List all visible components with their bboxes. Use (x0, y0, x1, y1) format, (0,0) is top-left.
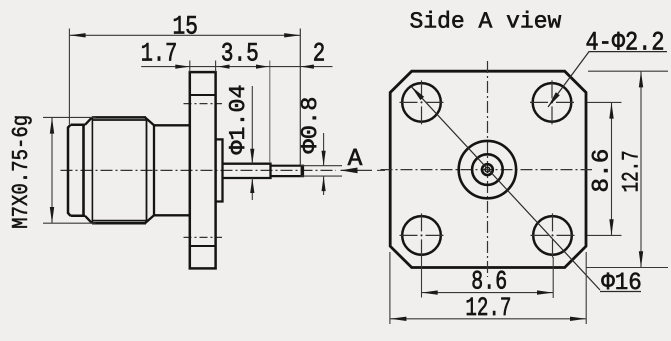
arrow A (points left) (341, 168, 358, 174)
text 8.6 right rotated (592, 150, 608, 191)
arrow 12.7 right bottom (639, 251, 643, 267)
text 8.6 bottom (472, 271, 505, 289)
dim line 12.7 right (640, 71, 642, 267)
A arrow line (341, 169, 373, 171)
dim line 8.6 bottom (422, 292, 554, 294)
text 15 (174, 16, 197, 34)
vertical centerline (487, 61, 489, 277)
hole top-right (533, 83, 572, 122)
thread relief line (82, 125, 85, 216)
text 4-dia2.2 (587, 32, 663, 50)
dia0.8 dim line upper (323, 133, 325, 166)
ext line 8.6 bottom (587, 234, 622, 236)
barrel section (154, 125, 190, 215)
dim line 1.7 / 3.5 / 2 (141, 66, 332, 68)
M7 ext line top (43, 116, 96, 118)
arrow 1.7 left (points right) (175, 65, 190, 69)
ext line 8.6 top (587, 101, 622, 103)
centerline main axis (61, 169, 337, 171)
arrow M7 bottom (50, 207, 54, 223)
horizontal centerline (381, 169, 593, 171)
text dia1.04 rotated (229, 86, 244, 155)
center circle outer (459, 141, 516, 198)
hole centerline lower (side view) (184, 236, 223, 238)
flange (side view) (190, 72, 216, 268)
hole top-left (402, 83, 441, 122)
diagonal leader dia16 (411, 86, 641, 291)
pin bottom ext line (300, 175, 342, 177)
centerline dash after A arrow (377, 169, 385, 171)
thread section outline (68, 125, 85, 216)
body inner edge lines (93, 120, 147, 221)
arrowhead 4-dia2.2 leader (548, 92, 560, 107)
arrowhead dia16 leader (411, 86, 424, 100)
flange square outline with chamfered corners (390, 71, 586, 267)
dia0.8 dim line lower (323, 176, 325, 195)
ext line cylinder end (269, 61, 271, 164)
title Side A view (410, 11, 561, 28)
leader 4-dia2.2 (548, 52, 667, 107)
arrow 15 left (69, 33, 85, 37)
body left chamfer ring line (91, 117, 93, 223)
boss behind flange (216, 139, 223, 201)
hole crosshairs (400, 80, 575, 257)
ext line 12.7 top (588, 70, 668, 72)
arrow 12.7 bottom right (570, 317, 586, 321)
text 2 (314, 43, 324, 61)
dia1.04 dim line lower (251, 178, 253, 200)
ext line 8.6 bottom-left (421, 257, 423, 298)
ext line left (x=69.4) (68, 29, 70, 125)
ext line 12.7 bottom-left (389, 252, 391, 324)
arrow dia0.8 bottom (322, 176, 326, 191)
insulator cylinder (223, 164, 271, 178)
arrow 8.6 bottom left (422, 290, 438, 294)
arrow 2 right (points left) (300, 65, 314, 69)
ext line flange right (215, 61, 217, 73)
arrow 8.6 right top (609, 102, 613, 118)
dim line 12.7 bottom (390, 318, 586, 320)
body outline (92, 117, 146, 223)
pin tip face (301, 166, 304, 176)
ext line 8.6 bottom-right (552, 257, 554, 298)
hole centerline upper (side view) (184, 103, 223, 105)
text A view label (348, 149, 363, 165)
arrow 15 right (284, 33, 300, 37)
center circle pin (485, 167, 490, 172)
ext line 12.7 bottom (586, 267, 668, 269)
arrow M7 top (50, 117, 54, 133)
center circle small (482, 164, 493, 175)
center circle mid (472, 154, 503, 185)
ext line flange left (189, 61, 191, 73)
dims right side (390, 71, 668, 324)
hole bottom-left (402, 216, 441, 255)
text dia16 (601, 273, 640, 290)
arrow dia1.04 bottom (250, 178, 254, 193)
arrow dia0.8 top (322, 151, 326, 166)
ext line 12.7 bottom-right2 (585, 252, 587, 324)
body left chamfer (85, 117, 92, 223)
arrow dia1.04 top (250, 149, 254, 164)
ext line pin tip (x=300.3) (299, 29, 301, 166)
arrow 12.7 bottom left (390, 317, 406, 321)
M7 ext line bottom (43, 222, 96, 224)
arrow 8.6 right bottom (609, 219, 613, 235)
flange chamfer line upper (190, 94, 216, 96)
dia1.04 dim line upper (251, 86, 253, 164)
center pin (271, 166, 304, 176)
text dia0.8 rotated (301, 98, 316, 153)
M7 dim line (51, 117, 53, 223)
arrow 3.5 right / 2 left (points right) (256, 65, 269, 69)
text 3.5 (222, 43, 257, 61)
arrow 1.7 right / 3.5 left (points left) (218, 65, 230, 69)
flange chamfer line lower (190, 245, 216, 247)
text M7X0.75-6g rotated (12, 116, 32, 227)
body right chamfer (145, 117, 154, 223)
text 12.7 bottom (467, 297, 510, 315)
hole bottom-right (533, 216, 572, 255)
pin top ext line (300, 165, 342, 167)
dim line 15 (69, 34, 300, 36)
arrow 8.6 bottom right (537, 290, 553, 294)
arrow 12.7 right top (639, 71, 643, 87)
text 1.7 (142, 43, 175, 60)
dim line 8.6 right (611, 102, 613, 235)
text 12.7 right rotated (622, 152, 638, 191)
